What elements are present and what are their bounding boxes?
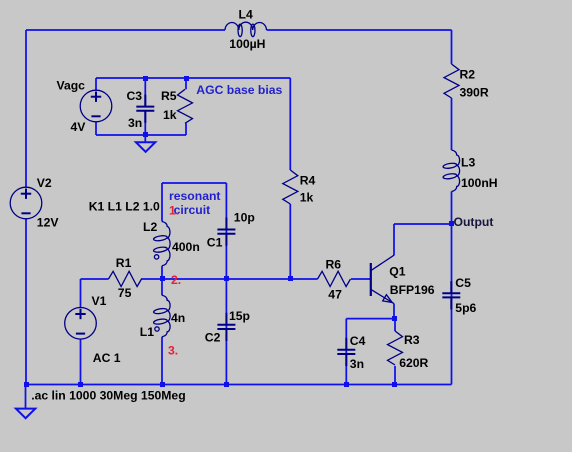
junction R5 top — [184, 76, 189, 81]
svg-text:Output: Output — [454, 215, 494, 229]
wire L2 top lead — [161, 183, 163, 222]
inductor L1 — [162, 295, 170, 337]
svg-text:C3: C3 — [127, 89, 143, 103]
wire C4 branch — [345, 319, 347, 385]
resistor R5 — [178, 89, 193, 123]
transistor Q1 emitter stroke — [371, 290, 394, 304]
svg-text:390R: 390R — [460, 86, 489, 100]
wire left rail V2 top — [25, 30, 27, 188]
svg-text:BFP196: BFP196 — [390, 283, 435, 297]
wire V1 bottom lead — [80, 339, 82, 385]
svg-text:75: 75 — [118, 286, 132, 300]
wire AGC drop to R4 — [289, 78, 291, 170]
ground GND2 — [136, 142, 155, 152]
svg-text:L4: L4 — [239, 8, 253, 22]
svg-text:3n: 3n — [128, 116, 142, 130]
wire Q1 collector up — [393, 224, 395, 255]
svg-text:R6: R6 — [326, 257, 342, 271]
svg-text:4V: 4V — [71, 120, 87, 134]
svg-text:C1: C1 — [207, 236, 223, 250]
svg-text:R4: R4 — [300, 174, 316, 188]
wire R6 to Q1 base — [351, 278, 370, 280]
junction C3 top — [143, 76, 148, 81]
svg-text:R3: R3 — [404, 333, 420, 347]
svg-text:12V: 12V — [37, 216, 60, 230]
wire C2 branch — [225, 279, 227, 385]
svg-text:L1: L1 — [140, 325, 154, 339]
svg-text:AGC base bias: AGC base bias — [196, 83, 282, 97]
capacitor C2 — [225, 313, 227, 325]
wire L1 bottom lead — [161, 337, 163, 385]
wire C1 branch — [225, 183, 227, 279]
resistor R4 — [283, 170, 298, 204]
junction node 2 — [160, 276, 165, 281]
transistor Q1 emitter arrow — [383, 295, 393, 303]
wire R3 bottom lead — [394, 366, 396, 385]
inductor L3 — [452, 150, 460, 192]
svg-text:V2: V2 — [37, 176, 52, 190]
L1 phase dot — [155, 327, 159, 331]
transistor Q1 collector stroke — [371, 255, 394, 270]
wire R6 left lead — [290, 278, 317, 280]
wire node2 bus to R4 foot — [162, 278, 290, 280]
wire R4 bottom lead — [289, 204, 291, 279]
wire right rail L3-C5-bottom — [451, 192, 453, 385]
resistor R2 — [444, 64, 459, 98]
junction emitter — [392, 316, 397, 321]
wire L2 bottom lead — [161, 266, 163, 279]
svg-text:1.: 1. — [169, 204, 179, 218]
svg-text:AC 1: AC 1 — [93, 351, 121, 365]
svg-text:1k: 1k — [163, 108, 177, 122]
svg-text:1k: 1k — [300, 191, 314, 205]
wire Vagc bottom bus — [96, 134, 186, 136]
voltage source Vagc — [80, 90, 112, 122]
wire R5 top lead — [185, 78, 187, 89]
resistor R3 — [388, 331, 403, 365]
svg-text:4n: 4n — [171, 311, 185, 325]
wire AGC bias top — [96, 77, 290, 79]
svg-text:resonant: resonant — [169, 189, 220, 203]
svg-text:C4: C4 — [350, 334, 366, 348]
wire top rail right of L4 — [267, 29, 452, 31]
junction C2 rail — [224, 382, 229, 387]
wire right rail R2-L3 — [451, 98, 453, 150]
wire left rail V2 bottom — [25, 219, 27, 385]
svg-text:V1: V1 — [92, 294, 107, 308]
svg-text:R5: R5 — [161, 89, 177, 103]
wire V1 top lead — [80, 279, 82, 308]
svg-text:100µH: 100µH — [229, 37, 265, 51]
svg-text:Vagc: Vagc — [57, 79, 86, 93]
wire Vagc bottom lead — [95, 122, 97, 136]
junction C3 bottom — [143, 132, 148, 137]
svg-text:100nH: 100nH — [461, 176, 498, 190]
transistor Q1 base bar — [370, 263, 372, 296]
svg-text:3.: 3. — [168, 344, 178, 358]
capacitor C4 — [345, 338, 347, 350]
junction C1/C2 — [224, 276, 229, 281]
svg-text:L3: L3 — [461, 156, 475, 170]
wire resonant box top — [162, 182, 226, 184]
svg-text:2.: 2. — [171, 273, 181, 287]
wire emitter node bus — [346, 318, 395, 320]
svg-text:3n: 3n — [350, 357, 364, 371]
svg-text:47: 47 — [328, 287, 342, 301]
junction L1 rail — [160, 382, 165, 387]
capacitor C3 — [144, 95, 146, 107]
L2 phase dot — [154, 255, 158, 259]
svg-text:C2: C2 — [205, 331, 221, 345]
svg-text:400n: 400n — [172, 240, 200, 254]
svg-text:R2: R2 — [460, 68, 476, 82]
svg-text:L2: L2 — [143, 220, 157, 234]
wire ground stub bottom-left — [25, 385, 27, 409]
inductor L4 — [225, 22, 267, 30]
svg-text:R1: R1 — [116, 256, 132, 270]
wire collector to Output — [394, 223, 452, 225]
wire Q1 emitter down — [393, 304, 395, 319]
wire bottom ground rail — [26, 384, 452, 386]
svg-text:Q1: Q1 — [389, 264, 405, 278]
svg-text:15p: 15p — [229, 309, 250, 323]
junction Output — [449, 221, 454, 226]
capacitor C1 — [225, 218, 227, 230]
wire V1 to R1 — [81, 278, 109, 280]
svg-text:10p: 10p — [234, 211, 255, 225]
junction rail left — [24, 382, 29, 387]
junction V1 rail — [78, 382, 83, 387]
ground GND1 — [16, 409, 35, 419]
wire R3 top lead — [394, 319, 396, 331]
svg-text:K1 L1 L2 1.0: K1 L1 L2 1.0 — [89, 199, 160, 213]
junction C4 rail — [344, 382, 349, 387]
svg-text:.ac lin 1000 30Meg 150Meg: .ac lin 1000 30Meg 150Meg — [31, 388, 185, 402]
voltage source V1 — [65, 308, 97, 340]
wire top rail left of L4 — [26, 29, 225, 31]
svg-text:620R: 620R — [399, 356, 428, 370]
wire R1 to node 2 — [141, 278, 162, 280]
wire R5 bottom lead — [185, 123, 187, 135]
wire ground stub under C3 — [144, 135, 146, 142]
junction R3 rail — [392, 382, 397, 387]
voltage source V2 — [10, 187, 42, 219]
capacitor C5 — [450, 281, 452, 293]
wire C3 bottom lead — [144, 111, 146, 135]
junction R4 foot — [288, 276, 293, 281]
inductor L2 — [162, 222, 170, 266]
resistor R1 — [109, 271, 142, 286]
svg-text:C5: C5 — [455, 276, 471, 290]
svg-text:5p6: 5p6 — [455, 301, 476, 315]
resistor R6 — [318, 271, 351, 286]
wire Vagc top lead — [95, 78, 97, 91]
wire L1 top lead — [161, 279, 163, 295]
wire right rail R2 top lead — [451, 30, 453, 64]
wire C3 top lead — [144, 78, 146, 106]
